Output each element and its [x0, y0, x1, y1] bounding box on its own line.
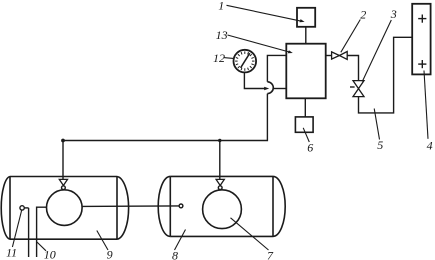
pipe 10 [37, 207, 47, 257]
svg-text:5: 5 [377, 138, 383, 152]
wire gauge down [244, 72, 265, 88]
wire drop to tank 9 [62, 141, 64, 180]
sensor circle 11 [20, 206, 24, 210]
leader 7 [231, 218, 269, 250]
wire box13 to valve 2 [326, 55, 332, 57]
svg-text:10: 10 [44, 248, 56, 260]
float circle 7 [203, 190, 242, 229]
leader 4 [424, 71, 428, 139]
leader 5 [374, 109, 379, 140]
svg-text:3: 3 [390, 7, 397, 21]
box 6 [295, 117, 313, 132]
leader 12 dash [224, 57, 234, 60]
leader 6 [303, 128, 309, 142]
svg-text:12: 12 [213, 51, 225, 65]
pipe hop arc [267, 82, 273, 94]
central box 13 [286, 44, 325, 99]
tank 9 shell [1, 177, 128, 240]
box 1 (component 1) [297, 8, 315, 27]
junction dot middle [218, 139, 221, 142]
pipe below tank (left) [28, 208, 30, 257]
nozzle circle tank 8 [218, 186, 222, 190]
svg-text:7: 7 [267, 248, 274, 260]
leader 1 [227, 5, 303, 21]
valve 3 stem tick [350, 86, 355, 88]
leader 8 [175, 230, 186, 251]
junction dot left [61, 139, 65, 143]
arrow V tank 9 [59, 179, 67, 185]
plus sign bottom in box 4 [418, 60, 426, 68]
wire valve3 to box 4 [359, 37, 413, 113]
arrowhead into hop [264, 87, 269, 91]
wire sensor stub [24, 207, 28, 209]
valve 3 bowtie [353, 81, 364, 89]
gauge 12 body [234, 50, 257, 73]
leader 10 [36, 242, 46, 251]
svg-text:6: 6 [307, 140, 313, 154]
leader 11 [12, 210, 21, 247]
valve 2 bowtie [332, 52, 340, 59]
wire after hop to box13 [274, 88, 287, 90]
svg-text:8: 8 [172, 248, 178, 260]
gauge 12 ticks [235, 51, 254, 70]
svg-text:11: 11 [6, 245, 17, 259]
bypass wire box13 left top [267, 55, 286, 81]
svg-text:9: 9 [107, 248, 113, 260]
wire box1 to box13 [305, 27, 307, 44]
nozzle circle tank 9 [62, 186, 66, 190]
gauge 12 needle [241, 53, 250, 68]
tank 8 shell [158, 176, 285, 236]
wire valve2 to corner [347, 56, 358, 81]
leader 13 [228, 35, 291, 52]
bypass wire down to manifold [63, 94, 267, 141]
arrow V tank 8 [216, 179, 224, 185]
wire drop to tank 8 [219, 141, 221, 180]
leader 1 arrowhead [300, 19, 305, 22]
svg-text:1: 1 [218, 0, 224, 12]
leader 13 arrowhead [288, 50, 293, 53]
svg-text:2: 2 [360, 8, 366, 22]
leader 2 [341, 20, 361, 53]
leader 3 [362, 20, 391, 82]
wire box13 to box6 [304, 98, 306, 117]
box 4 [412, 4, 430, 75]
small circle tank 8 inlet [179, 204, 183, 208]
plus sign top in box 4 [418, 15, 426, 23]
svg-text:4: 4 [427, 139, 433, 153]
svg-text:13: 13 [216, 28, 228, 42]
leader 9 [97, 231, 108, 251]
float circle 9 [47, 190, 83, 226]
wire float to tank 8 [82, 205, 179, 208]
